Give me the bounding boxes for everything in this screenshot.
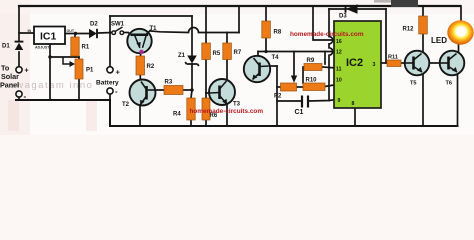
wire R12 to T5	[422, 34, 424, 52]
junction dot divider	[48, 55, 51, 58]
wire left rail top	[18, 6, 20, 41]
svg-text:IN: IN	[28, 29, 32, 33]
junction dot OUT	[74, 32, 77, 35]
svg-text:OUT: OUT	[67, 29, 75, 33]
wire R7 to T3 collector	[226, 60, 228, 80]
wire Z1 riser	[191, 16, 193, 56]
wire R12 top lead	[422, 6, 424, 16]
svg-text:swagatam inno: swagatam inno	[10, 80, 93, 91]
svg-text:P1: P1	[86, 68, 94, 74]
wire T4 base out	[269, 65, 278, 67]
svg-text:T6: T6	[446, 81, 453, 87]
svg-text:+: +	[25, 68, 29, 75]
wire T5 T6 link	[430, 62, 441, 64]
wire T6 emitter down	[457, 73, 459, 126]
svg-text:10: 10	[336, 78, 342, 84]
resistor R9	[304, 58, 322, 71]
wire P2 wiper riser	[293, 52, 295, 79]
svg-text:R11: R11	[388, 55, 398, 61]
svg-text:R4: R4	[173, 112, 181, 118]
wire T2 emitter down	[139, 105, 141, 126]
IC2	[334, 21, 381, 108]
wire P2 to R10	[297, 86, 304, 88]
wire bottom bus	[16, 99, 110, 101]
svg-text:T1: T1	[150, 26, 158, 32]
svg-text:R10: R10	[306, 78, 318, 84]
capacitor C1	[295, 96, 309, 117]
wire OUT to D2	[65, 33, 89, 35]
wire Z1 to R4	[191, 64, 192, 98]
svg-text:IC1: IC1	[40, 31, 57, 43]
wire P1 bottom	[78, 79, 80, 100]
wire T1 collector rail with hop	[151, 28, 240, 33]
zener Z1	[178, 53, 199, 66]
faint pink smudge left-bottom	[8, 100, 19, 131]
wire R5 R6 link	[205, 60, 207, 99]
wire pin12 rail with hop	[258, 51, 334, 53]
svg-text:T2: T2	[122, 102, 130, 108]
wire enclosure left riser	[109, 16, 111, 33]
wire battery minus drop	[109, 94, 111, 100]
junction dot R3 Z1	[190, 88, 193, 91]
wire R5 top lead	[205, 33, 207, 44]
wire divider junction horizontal	[50, 56, 79, 58]
wire R5 frame riser	[205, 6, 207, 33]
wire IN tap	[19, 32, 34, 34]
wire pin8 ground drop	[354, 108, 356, 126]
resistor R2	[136, 56, 155, 75]
wire battery plus riser	[109, 33, 111, 67]
wire T1 emitter to R2	[140, 49, 143, 56]
page background	[0, 0, 474, 135]
wire R6 bottom lead	[205, 120, 207, 126]
svg-text:IC2: IC2	[346, 57, 363, 69]
svg-text:homemade-circuits.com: homemade-circuits.com	[290, 31, 364, 38]
diode D3	[339, 4, 358, 19]
wire D3 right leg	[385, 9, 387, 63]
svg-text:P2: P2	[274, 94, 282, 100]
wire R7 top lead	[226, 33, 228, 44]
resistor R7	[223, 43, 242, 60]
battery plus terminal	[107, 67, 121, 77]
wire R10 right lead to pin 10	[325, 85, 334, 87]
gray strip light	[374, 0, 392, 3]
svg-text:R9: R9	[307, 58, 315, 64]
svg-text:R3: R3	[165, 80, 173, 86]
transistor T3	[209, 79, 241, 108]
wire T3 emitter down	[226, 105, 228, 126]
svg-text:-: -	[115, 87, 118, 96]
transistor T5	[405, 51, 430, 87]
svg-text:T3: T3	[233, 102, 241, 108]
wire R8 top lead	[265, 6, 267, 21]
wire left rail mid	[18, 52, 20, 66]
wire R9 right lead to pin 11	[322, 66, 334, 69]
gray block dark	[391, 0, 418, 7]
wire R1 top lead	[74, 34, 76, 38]
svg-text:R7: R7	[234, 50, 242, 56]
resistor R11	[387, 55, 401, 67]
wire R2 to T2	[139, 75, 141, 80]
resistor R5	[202, 43, 221, 60]
wire R9 R10 left junction riser	[302, 67, 304, 83]
solar plus terminal	[16, 67, 29, 75]
wire P2 C1 left riser	[276, 66, 278, 126]
transistor T6	[440, 51, 465, 87]
wire corner riser	[238, 6, 240, 33]
wire main ground drop	[109, 100, 111, 126]
wire pin16 supply riser	[313, 6, 334, 40]
battery minus terminal	[107, 87, 118, 96]
wire P1 top lead	[78, 57, 80, 59]
wire pin3 stub	[381, 62, 387, 64]
wire D3 top	[329, 8, 386, 10]
svg-text:T4: T4	[272, 55, 280, 61]
svg-text:3: 3	[373, 62, 376, 68]
diode D1	[2, 42, 23, 50]
regulator IC1	[28, 27, 75, 50]
resistor R4	[173, 98, 195, 120]
resistor R1	[71, 37, 90, 56]
junction dot R8	[264, 50, 267, 53]
svg-text:+: +	[116, 68, 121, 77]
svg-text:R2: R2	[147, 64, 155, 70]
switch SW1	[111, 22, 125, 35]
wire R8 bottom lead	[265, 38, 267, 52]
svg-text:R12: R12	[403, 27, 415, 33]
svg-text:12: 12	[336, 50, 342, 56]
diode D2	[89, 22, 98, 39]
svg-text:Battery: Battery	[96, 80, 119, 87]
resistor R10	[303, 78, 325, 91]
svg-text:LED: LED	[431, 36, 447, 45]
resistor R12	[403, 16, 428, 34]
faint pink smudge mid-bottom	[86, 100, 97, 131]
svg-text:T5: T5	[410, 81, 417, 87]
resistor R6	[202, 98, 218, 120]
solar minus terminal	[16, 91, 27, 101]
svg-text:D1: D1	[2, 44, 10, 50]
svg-text:11: 11	[336, 67, 342, 73]
svg-text:D3: D3	[339, 14, 347, 20]
svg-text:R5: R5	[213, 51, 221, 57]
svg-text:SW1: SW1	[111, 22, 125, 28]
transistor T2	[122, 80, 156, 109]
svg-text:ADJUST: ADJUST	[35, 46, 50, 50]
wire T2 base to R3	[155, 89, 164, 91]
resistor R8	[262, 21, 282, 38]
svg-text:9: 9	[338, 98, 341, 104]
svg-text:-: -	[24, 92, 27, 101]
wire T5 emitter down	[422, 73, 424, 126]
wire T3 base tap	[206, 92, 210, 94]
wire R4 bottom lead	[190, 120, 192, 126]
svg-text:16: 16	[336, 39, 342, 45]
wire R3 to Z1 junction	[183, 89, 192, 91]
svg-text:C1: C1	[295, 109, 304, 116]
wire LED to T6	[458, 44, 460, 52]
wire enclosure top	[110, 15, 192, 17]
transistor T1	[127, 26, 157, 54]
svg-text:homemade-circuits.com: homemade-circuits.com	[190, 108, 264, 115]
svg-text:Z1: Z1	[178, 53, 186, 59]
LED	[431, 20, 474, 45]
svg-text:Panel: Panel	[0, 81, 19, 90]
wire D2 to SW1	[99, 32, 112, 35]
wire T4 collector	[257, 52, 259, 57]
svg-text:R8: R8	[274, 30, 282, 36]
wire SW1 to T1	[124, 32, 129, 34]
preset P2	[274, 76, 297, 100]
wire C1 left lead	[277, 100, 301, 102]
svg-text:D2: D2	[90, 22, 98, 28]
wire C1 right lead to pin 9	[309, 100, 335, 101]
resistor R3	[164, 80, 183, 95]
wire adjust divider	[49, 44, 51, 100]
svg-text:R1: R1	[82, 45, 90, 51]
preset P1	[63, 57, 94, 79]
wire LED top lead	[460, 6, 462, 22]
wire R9 junction riser	[324, 52, 326, 65]
wire solar minus stub	[18, 97, 20, 100]
top frame wire	[19, 5, 460, 7]
wire R1 bottom lead	[74, 56, 76, 57]
svg-text:8: 8	[352, 101, 355, 107]
transistor T4	[244, 55, 279, 82]
wire R11 to T5 base	[401, 62, 406, 64]
wire bottom rail	[110, 125, 458, 127]
wire D3 left leg with hops	[329, 9, 333, 101]
